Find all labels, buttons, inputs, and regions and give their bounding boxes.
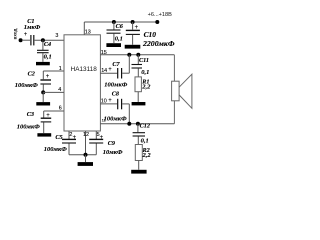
ground for C2	[36, 102, 50, 105]
svg-text:10: 10	[101, 99, 107, 105]
svg-text:C3: C3	[27, 111, 34, 118]
capacitor C1	[24, 18, 41, 45]
svg-text:100мкФ: 100мкФ	[104, 82, 127, 89]
svg-text:0,1: 0,1	[141, 69, 149, 76]
capacitor C12	[133, 122, 150, 144]
wire speaker top riser	[173, 55, 175, 81]
svg-text:100мкФ: 100мкФ	[15, 82, 38, 89]
svg-text:12: 12	[83, 132, 89, 138]
wire pin 11 to speaker	[100, 123, 174, 125]
wire pin 1	[43, 70, 64, 72]
wire C2 junction down	[42, 92, 44, 102]
wire input to C1	[22, 39, 30, 41]
svg-text:1: 1	[59, 66, 62, 72]
op-amp U1 HA13118	[64, 35, 100, 131]
svg-text:C2: C2	[28, 70, 35, 77]
svg-text:13: 13	[85, 30, 91, 36]
capacitor C6	[107, 22, 124, 43]
node junction at C4	[41, 38, 45, 42]
svg-text:C6: C6	[116, 23, 124, 30]
capacitor C5	[44, 134, 77, 155]
wire C1 to pin 3	[35, 39, 64, 41]
capacitor C10	[126, 22, 175, 48]
svg-text:100мкФ: 100мкФ	[44, 146, 67, 153]
svg-text:+6...+18В: +6...+18В	[148, 12, 173, 18]
wire bottom junction	[69, 154, 96, 156]
svg-text:15: 15	[101, 50, 107, 56]
svg-text:2,2: 2,2	[141, 84, 151, 91]
svg-text:вход: вход	[13, 28, 18, 39]
svg-text:C12: C12	[140, 122, 150, 129]
node junction C2/pin4	[41, 90, 45, 94]
svg-text:6: 6	[59, 106, 62, 112]
node junction pin12	[84, 153, 88, 157]
svg-text:3: 3	[55, 33, 58, 39]
capacitor C7	[100, 55, 129, 89]
capacitor C2	[15, 70, 51, 92]
ground for R1	[132, 102, 146, 105]
svg-text:100мкФ: 100мкФ	[104, 115, 127, 122]
svg-text:+: +	[108, 98, 112, 104]
wire pin 6	[44, 110, 64, 112]
wire speaker bottom riser	[173, 101, 175, 124]
ground bottom	[78, 162, 93, 166]
svg-text:C10: C10	[144, 30, 157, 39]
svg-text:2,2: 2,2	[142, 152, 152, 159]
resistor R2	[135, 145, 151, 170]
wire pin 15 to speaker	[100, 54, 174, 56]
node junction C7 riser	[127, 53, 131, 57]
wire pin 13 riser	[83, 22, 85, 35]
svg-text:C7: C7	[112, 61, 120, 68]
node junction C12	[136, 122, 140, 126]
node junction C6	[112, 20, 116, 24]
node junction C8 riser	[127, 122, 131, 126]
svg-text:C11: C11	[139, 57, 149, 64]
node junction C10	[131, 20, 135, 24]
ground for C10	[125, 45, 141, 49]
ground for C3	[37, 133, 51, 136]
speaker LS	[172, 74, 192, 108]
node input terminal	[19, 38, 23, 42]
ground for R2	[131, 170, 146, 174]
svg-text:C9: C9	[108, 140, 115, 147]
svg-text:4: 4	[58, 87, 61, 93]
wire pin 4	[43, 91, 64, 93]
svg-text:2200мкФ: 2200мкФ	[142, 39, 175, 48]
svg-text:C5: C5	[55, 134, 62, 141]
svg-text:0,1: 0,1	[115, 36, 123, 43]
node junction C11	[136, 53, 140, 57]
svg-text:100мкФ: 100мкФ	[17, 123, 40, 130]
wire pin 12	[85, 131, 87, 155]
svg-text:C8: C8	[112, 90, 119, 97]
ground for C6	[106, 43, 121, 47]
capacitor C11	[132, 55, 150, 77]
svg-text:10мкФ: 10мкФ	[103, 149, 123, 156]
ground for C4	[36, 62, 50, 65]
wire pin 5	[95, 131, 97, 139]
node power terminal	[155, 20, 159, 24]
wire to ground	[85, 155, 87, 162]
svg-text:HA13118: HA13118	[71, 66, 98, 73]
wire pin 2	[68, 131, 70, 139]
capacitor C8	[100, 90, 129, 123]
capacitor C4	[37, 40, 52, 62]
svg-text:C4: C4	[44, 41, 51, 48]
svg-text:+: +	[46, 74, 50, 80]
wire power rail	[84, 21, 157, 23]
svg-text:+: +	[24, 32, 28, 38]
svg-text:14: 14	[101, 68, 107, 74]
svg-text:1мкФ: 1мкФ	[24, 24, 41, 31]
svg-text:0,1: 0,1	[44, 54, 52, 61]
resistor R1	[135, 77, 151, 102]
capacitor C9	[89, 135, 123, 156]
capacitor C3	[17, 111, 51, 133]
svg-text:0,1: 0,1	[141, 137, 149, 144]
